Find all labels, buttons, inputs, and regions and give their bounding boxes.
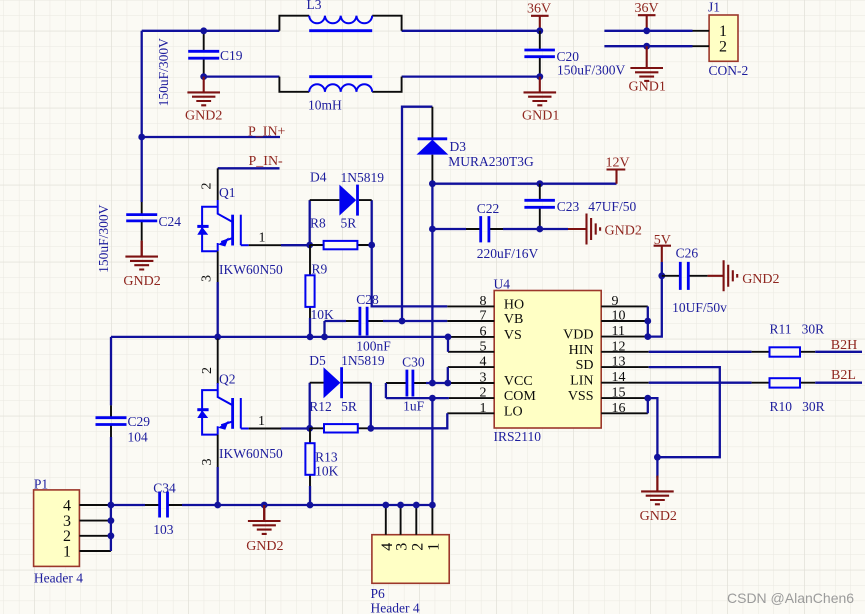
svg-text:4: 4	[480, 355, 487, 370]
svg-text:3: 3	[394, 543, 411, 551]
svg-text:R8: R8	[310, 215, 326, 230]
svg-text:47UF/50: 47UF/50	[588, 199, 636, 214]
wire net P_IN-	[218, 167, 280, 169]
wire pins 4-3 tie	[447, 367, 449, 383]
svg-text:3: 3	[480, 371, 487, 386]
svg-text:10K: 10K	[315, 464, 339, 479]
svg-text:C23: C23	[557, 199, 580, 214]
svg-text:5R: 5R	[341, 399, 357, 414]
ground GND2 under C19	[185, 77, 222, 124]
power port 36V at C20	[527, 2, 551, 31]
node bus P6 pin4	[382, 502, 389, 509]
node R9 bottom VS	[307, 334, 314, 341]
svg-text:10UF/50v: 10UF/50v	[672, 300, 727, 315]
node bottom-left of C19	[200, 73, 207, 80]
svg-text:CSDN @AlanChen6: CSDN @AlanChen6	[727, 590, 854, 606]
node bus P6 pin2	[413, 502, 420, 509]
wire net P_IN+	[142, 136, 280, 138]
wire to sideways ground	[540, 228, 568, 230]
svg-text:36V: 36V	[527, 2, 551, 17]
svg-text:12: 12	[612, 339, 626, 354]
wire 5V to VDD pins	[648, 262, 662, 337]
chip U4 IRS2110	[494, 277, 602, 444]
node P1 pin3	[108, 517, 115, 524]
node C20 bottom	[536, 73, 543, 80]
svg-text:Header 4: Header 4	[371, 601, 420, 614]
node R12 right	[367, 425, 374, 432]
svg-text:10mH: 10mH	[308, 98, 342, 113]
wire Q2 emitter	[217, 435, 219, 467]
svg-text:L3: L3	[307, 0, 322, 12]
svg-text:1: 1	[63, 543, 71, 560]
svg-text:VCC: VCC	[504, 374, 533, 389]
svg-text:VDD: VDD	[563, 328, 593, 343]
capacitor C24	[96, 202, 181, 273]
wire top rail left	[142, 30, 280, 32]
svg-text:VB: VB	[504, 312, 523, 327]
capacitor C28 100nF	[325, 292, 403, 354]
capacitor C19	[156, 31, 243, 107]
wire Q2 gate	[249, 428, 281, 430]
svg-text:GND2: GND2	[246, 539, 283, 554]
svg-text:IKW60N50: IKW60N50	[219, 446, 283, 461]
node C23 bottom	[536, 226, 543, 233]
svg-text:9: 9	[612, 294, 619, 309]
pin 3 VCC	[448, 382, 494, 384]
svg-text:B2L: B2L	[831, 368, 856, 383]
svg-text:2: 2	[480, 386, 487, 401]
wire COM down to ground bus	[431, 398, 433, 505]
svg-text:HIN: HIN	[569, 343, 594, 358]
wire HO net	[372, 245, 448, 306]
diode D4 1N5819	[310, 170, 385, 246]
svg-text:7: 7	[480, 309, 487, 324]
capacitor C23 47UF/50	[524, 184, 636, 229]
svg-text:1uF: 1uF	[403, 399, 425, 414]
pin 1 LO	[447, 412, 494, 414]
node Q2 gate R12	[306, 425, 313, 432]
svg-text:HO: HO	[504, 297, 524, 312]
node bus Q2 emitter	[214, 502, 221, 509]
svg-text:10: 10	[612, 309, 626, 324]
node Q1 gate R8	[306, 242, 313, 249]
pin 9	[601, 305, 648, 307]
wire J1 pin1	[604, 30, 692, 32]
svg-text:C26: C26	[676, 246, 699, 261]
svg-text:LO: LO	[504, 404, 523, 419]
ground GND2 bottom right	[640, 476, 677, 525]
svg-text:1: 1	[425, 543, 442, 551]
svg-text:5V: 5V	[654, 233, 671, 248]
node C23 top	[536, 180, 543, 187]
resistor R11 30R	[752, 321, 825, 356]
inductor L3 bottom winding 10mH	[279, 77, 401, 113]
node SD-VSS join	[654, 454, 661, 461]
node 36V J1	[643, 27, 650, 34]
ground GND2 sideways at C26	[708, 260, 780, 291]
wire left rail	[141, 31, 143, 202]
diode D3 MURA230T3G	[417, 107, 535, 184]
pin 6 VS	[448, 336, 494, 338]
wire pins 9-10-11 tie	[647, 306, 649, 336]
wire VB net	[402, 107, 447, 321]
svg-text:J1: J1	[708, 0, 720, 15]
wire ground bus	[218, 504, 433, 506]
node VCC row at D3 drop	[429, 380, 436, 387]
svg-text:1: 1	[258, 414, 265, 429]
wire Q1 gate	[249, 244, 281, 246]
node COM row	[429, 395, 436, 402]
wire J1 pin2	[604, 45, 692, 47]
wire pins 5-6 tie	[447, 337, 449, 352]
svg-text:C29: C29	[128, 414, 151, 429]
node 36V rail	[536, 27, 543, 34]
pin 4	[448, 366, 494, 368]
wire SD loop	[649, 367, 720, 457]
ground GND1 under J1 wires	[629, 46, 666, 94]
svg-text:VS: VS	[504, 328, 522, 343]
node P1 pin2	[108, 532, 115, 539]
svg-text:150uF/300V: 150uF/300V	[557, 63, 626, 78]
svg-text:R13: R13	[315, 450, 338, 465]
svg-text:1N5819: 1N5819	[341, 170, 385, 185]
svg-text:GND2: GND2	[123, 274, 160, 289]
node R8 right	[368, 242, 375, 249]
pin 5	[448, 351, 494, 353]
inductor L3 top winding	[279, 0, 401, 31]
pin 2 COM	[449, 397, 494, 399]
resistor R8 5R	[310, 215, 372, 249]
wire Q1 emitter	[217, 251, 219, 282]
node bus P6 pin3	[397, 502, 404, 509]
wire LIN to R10	[649, 382, 752, 384]
node D3 anode 12V rail	[429, 180, 436, 187]
svg-text:D4: D4	[310, 170, 327, 185]
pin 10	[601, 320, 648, 322]
ground GND2 sideways at C23	[568, 214, 642, 245]
wire net B2L	[815, 382, 862, 384]
node P1 pin4	[108, 502, 115, 509]
svg-text:104: 104	[128, 430, 149, 445]
svg-text:Q2: Q2	[219, 371, 236, 386]
svg-text:Header 4: Header 4	[34, 570, 83, 585]
svg-text:100nF: 100nF	[356, 339, 391, 354]
node C28 right VB	[399, 318, 406, 325]
svg-text:16: 16	[612, 401, 626, 416]
svg-text:6: 6	[480, 324, 487, 339]
svg-text:MURA230T3G: MURA230T3G	[448, 154, 534, 169]
node top-left	[200, 27, 207, 34]
svg-text:D5: D5	[309, 353, 326, 368]
wire LO net	[371, 413, 448, 428]
transistor Q1 IKW60N50	[197, 168, 283, 282]
svg-text:2: 2	[200, 367, 215, 374]
pin 15 VSS	[601, 397, 648, 399]
svg-text:Q1: Q1	[219, 185, 236, 200]
wire COM to pin2	[432, 397, 449, 399]
svg-text:2: 2	[200, 183, 215, 190]
capacitor C29 104	[96, 337, 151, 505]
svg-text:D3: D3	[450, 139, 467, 154]
wire 12V rail	[432, 183, 616, 185]
svg-text:R10 30R: R10 30R	[770, 399, 825, 414]
wire bottom rail left	[204, 75, 280, 77]
svg-text:1: 1	[259, 231, 266, 246]
svg-text:GND1: GND1	[522, 109, 559, 124]
resistor R9 10K	[305, 245, 334, 337]
pin 14 LIN	[601, 382, 649, 384]
svg-text:P6: P6	[371, 586, 386, 601]
svg-text:GND2: GND2	[640, 509, 677, 524]
wire P1 bus	[110, 505, 112, 551]
svg-text:SD: SD	[576, 358, 594, 373]
capacitor C22 220uF/16V	[432, 201, 539, 261]
pin 11 VDD	[601, 336, 648, 338]
node bus P6 pin1	[429, 502, 436, 509]
wire VS net	[111, 336, 448, 338]
node 5V C26	[658, 272, 665, 279]
node C28 left VS	[321, 334, 328, 341]
svg-text:5: 5	[480, 339, 487, 354]
connector J1 CON-2	[693, 0, 749, 78]
power port 12V	[606, 155, 630, 183]
svg-text:36V: 36V	[635, 1, 659, 16]
svg-text:IRS2110: IRS2110	[494, 429, 542, 444]
wire HIN to R11	[649, 351, 752, 353]
transistor Q2 IKW60N50	[197, 339, 283, 466]
svg-text:P1: P1	[34, 476, 48, 491]
svg-text:150uF/300V: 150uF/300V	[96, 204, 111, 273]
svg-text:LIN: LIN	[570, 374, 593, 389]
ground GND2 under C24	[123, 241, 160, 289]
svg-text:12V: 12V	[606, 155, 630, 170]
svg-text:P_IN+: P_IN+	[248, 124, 286, 139]
svg-text:GND2: GND2	[185, 108, 222, 123]
svg-text:4: 4	[63, 497, 71, 514]
power port 36V at J1	[635, 1, 659, 30]
svg-text:R12: R12	[309, 399, 332, 414]
svg-text:P_IN-: P_IN-	[249, 154, 284, 169]
pin 12 HIN	[601, 351, 649, 353]
svg-text:R9: R9	[312, 261, 328, 276]
pin 7 VB	[447, 320, 494, 322]
svg-text:2: 2	[409, 543, 426, 551]
svg-text:10K: 10K	[311, 307, 335, 322]
resistor R10 30R	[752, 378, 825, 414]
power port 5V	[654, 233, 671, 262]
wire VCC drop from D3	[431, 184, 433, 383]
svg-text:VSS: VSS	[568, 389, 594, 404]
capacitor C30 1uF	[386, 355, 448, 414]
ground GND2 at bus	[246, 505, 283, 554]
svg-text:C22: C22	[477, 201, 500, 216]
svg-text:C24: C24	[159, 214, 182, 229]
wire top rail right	[402, 30, 540, 32]
svg-text:1N5819: 1N5819	[341, 353, 385, 368]
svg-text:C34: C34	[153, 480, 176, 495]
capacitor C20	[524, 31, 625, 78]
svg-text:B2H: B2H	[831, 338, 857, 353]
connector P1 Header 4	[34, 476, 111, 585]
svg-text:U4: U4	[494, 277, 511, 292]
node C22 row left	[429, 226, 436, 233]
svg-text:C30: C30	[402, 355, 425, 370]
svg-text:C28: C28	[356, 292, 379, 307]
svg-text:5R: 5R	[341, 215, 357, 230]
wire pins 15-16 tie	[647, 398, 649, 413]
svg-text:103: 103	[153, 522, 174, 537]
svg-text:3: 3	[200, 459, 215, 466]
svg-text:150uF/300V: 150uF/300V	[156, 38, 171, 107]
svg-text:2: 2	[719, 38, 727, 55]
svg-text:CON-2: CON-2	[709, 63, 749, 78]
node VCC row at pin3	[444, 380, 451, 387]
wire bottom rail right	[402, 75, 540, 77]
svg-text:R11 30R: R11 30R	[770, 321, 825, 336]
svg-text:COM: COM	[504, 389, 536, 404]
resistor R13 10K	[305, 428, 338, 505]
node VS Q1	[214, 334, 221, 341]
svg-text:C19: C19	[220, 48, 243, 63]
svg-text:GND2: GND2	[742, 272, 779, 287]
pin 8 HO	[447, 305, 494, 307]
pin 16	[601, 412, 648, 414]
node bus GND2	[261, 502, 268, 509]
svg-text:220uF/16V: 220uF/16V	[477, 246, 539, 261]
svg-text:3: 3	[200, 275, 215, 282]
wire net B2H	[815, 351, 862, 353]
svg-text:GND2: GND2	[605, 223, 642, 238]
connector P6 Header 4	[371, 505, 450, 614]
ground GND1 under C20	[522, 77, 559, 124]
svg-text:1: 1	[480, 401, 487, 416]
wire VSS to ground	[648, 398, 658, 477]
capacitor C34 103	[111, 480, 218, 537]
svg-text:GND1: GND1	[629, 79, 666, 94]
svg-text:11: 11	[612, 324, 625, 339]
resistor R12 5R	[309, 399, 371, 433]
pin 13 SD	[601, 366, 649, 368]
node bus R13	[307, 502, 314, 509]
capacitor C26 10UF/50v	[662, 246, 727, 315]
diode D5 1N5819	[309, 353, 385, 428]
svg-text:15: 15	[612, 386, 626, 401]
svg-text:8: 8	[480, 294, 487, 309]
svg-text:14: 14	[612, 370, 626, 385]
svg-text:13: 13	[612, 355, 626, 370]
node P_IN+	[138, 134, 145, 141]
node GND1 J1	[643, 43, 650, 50]
svg-text:IKW60N50: IKW60N50	[219, 262, 283, 277]
